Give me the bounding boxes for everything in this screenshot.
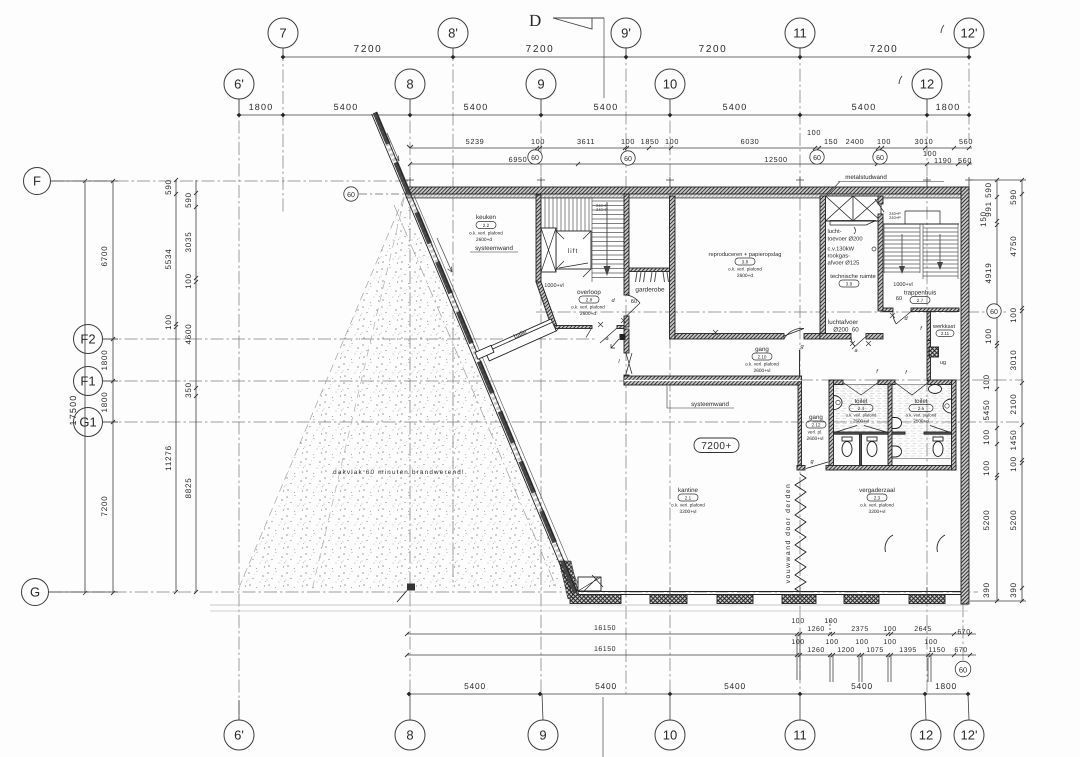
- svg-text:1260: 1260: [807, 647, 825, 654]
- svg-text:5450: 5450: [982, 400, 991, 421]
- small letter labels: [605, 296, 923, 465]
- svg-text:systeemwand: systeemwand: [691, 401, 729, 408]
- svg-text:100: 100: [791, 618, 804, 625]
- grid bolt ticks on top wall: [406, 177, 973, 187]
- wall top inner leaf: [406, 194, 969, 198]
- bottom dim line C y694: [409, 693, 969, 695]
- cubicle wall 2.5: [924, 432, 952, 434]
- svg-text:2.8: 2.8: [586, 298, 593, 303]
- label systeemwand keuken: [470, 245, 518, 252]
- gridline 11 vertical: [799, 47, 801, 694]
- tech room right wall lower: [878, 214, 883, 311]
- grid bolt ticks on bottom wall: [670, 587, 927, 597]
- svg-text:3611: 3611: [577, 137, 595, 146]
- label keuken: [469, 214, 503, 243]
- toilet block top wall a: [829, 380, 843, 385]
- svg-text:2645: 2645: [914, 626, 932, 633]
- svg-text:Ø200 60: Ø200 60: [833, 327, 859, 334]
- small circle o marker: [872, 247, 876, 251]
- svg-text:100: 100: [825, 639, 838, 646]
- svg-text:7200: 7200: [526, 44, 555, 55]
- svg-text:11276: 11276: [164, 445, 173, 471]
- overloop bottom wall right: [617, 326, 624, 329]
- gridline G horizontal: [49, 591, 978, 593]
- svg-text:5200: 5200: [982, 510, 991, 531]
- svg-text:9: 9: [539, 728, 546, 743]
- fire circle 60 bottom: [955, 661, 971, 677]
- svg-text:12500: 12500: [764, 155, 787, 164]
- svg-text:kantine: kantine: [678, 487, 699, 494]
- svg-text:17500: 17500: [68, 394, 78, 425]
- trappenhuis walk line with arrow: [899, 234, 943, 274]
- svg-text:3.8: 3.8: [742, 260, 749, 265]
- bubble 10 bottom: [655, 694, 685, 750]
- svg-text:o.k. verl. plafond: o.k. verl. plafond: [469, 231, 503, 236]
- svg-text:560: 560: [958, 156, 972, 165]
- roof line parallel to wall: [394, 205, 557, 589]
- balie link line to wall: [556, 327, 560, 331]
- svg-text:reproduceren + papieropslag: reproduceren + papieropslag: [709, 251, 782, 258]
- svg-text:1260: 1260: [807, 626, 825, 633]
- labels detail row B: [509, 149, 972, 165]
- wall bottom thin lines: [573, 591, 961, 593]
- gridline F1 horizontal: [103, 380, 624, 382]
- svg-text:100: 100: [883, 639, 896, 646]
- svg-text:vergaderzaal: vergaderzaal: [859, 487, 895, 494]
- vergaderzaal door arc 2: [937, 535, 945, 552]
- window sill block 4: [782, 595, 816, 604]
- svg-text:12': 12': [961, 728, 978, 743]
- label vergaderzaal: [859, 487, 895, 515]
- svg-text:100: 100: [1009, 456, 1018, 472]
- svg-text:1000+vl: 1000+vl: [544, 283, 563, 289]
- overloop bottom wall left: [552, 326, 592, 329]
- svg-text:2600+vl: 2600+vl: [807, 436, 824, 442]
- svg-text:2500+vl: 2500+vl: [853, 419, 869, 424]
- svg-text:G: G: [30, 585, 40, 600]
- toilet block bottom wall: [826, 466, 956, 471]
- svg-text:60: 60: [347, 192, 355, 199]
- fire circle 60 left of wall: [344, 187, 409, 201]
- svg-text:5400: 5400: [464, 681, 486, 691]
- wall below overloop corner vertical: [624, 329, 629, 353]
- gridline 9 vertical: [540, 99, 542, 694]
- svg-text:240+P: 240+P: [889, 215, 901, 220]
- chain R1 line: [996, 180, 998, 601]
- svg-text:12': 12': [961, 26, 978, 41]
- svg-text:6700: 6700: [100, 246, 109, 267]
- vouwwand zigzag: [795, 474, 806, 592]
- roof edge line lower 2: [210, 610, 968, 612]
- wall diagonal edge lines: [372, 114, 573, 595]
- svg-text:10: 10: [663, 77, 677, 92]
- svg-text:100: 100: [665, 137, 679, 146]
- svg-text:toevoer Ø200: toevoer Ø200: [828, 236, 863, 243]
- gridline F2 horizontal: [103, 338, 596, 340]
- window sill block 5: [844, 595, 879, 604]
- svg-text:8: 8: [406, 728, 413, 743]
- svg-text:560: 560: [959, 137, 973, 146]
- svg-text:7200: 7200: [870, 44, 899, 55]
- label technische ruimte: [830, 273, 875, 287]
- svg-text:toilet: toilet: [854, 398, 867, 405]
- door in wall x624: [626, 353, 632, 374]
- bubble 12' top: [941, 18, 984, 57]
- trappenhuis bottom wall right: [911, 308, 959, 312]
- svg-text:lift: lift: [568, 248, 579, 255]
- gridline 12 vertical: [926, 99, 928, 694]
- section D line upper: [603, 18, 605, 98]
- svg-text:gang: gang: [755, 346, 769, 353]
- bubble 6' bottom: [224, 700, 254, 750]
- svg-text:590: 590: [984, 182, 993, 198]
- svg-text:1450: 1450: [1009, 430, 1018, 451]
- svg-text:2500+d: 2500+d: [913, 419, 929, 424]
- stair right wall lower: [624, 316, 629, 327]
- trappenhuis treads right flight: [923, 224, 958, 279]
- gridline 9' vertical: [625, 47, 627, 694]
- svg-text:390: 390: [1009, 582, 1018, 598]
- svg-text:60: 60: [531, 155, 539, 162]
- svg-text:590: 590: [184, 192, 193, 208]
- tech bottom wall right: [866, 334, 883, 340]
- label kantine: [671, 487, 705, 515]
- ticks bottom A: [405, 632, 972, 657]
- svg-text:trappenhuis: trappenhuis: [904, 290, 936, 297]
- garderobe top wall: [629, 268, 670, 272]
- svg-text:100: 100: [1009, 307, 1018, 323]
- labels bottom C: [464, 681, 957, 691]
- svg-text:overloop: overloop: [577, 289, 601, 296]
- svg-text:8': 8': [448, 26, 458, 41]
- gridline 8' vertical: [452, 48, 454, 586]
- wall stub left of toilet bottom: [797, 466, 805, 471]
- wall diagonal band hatched segments: [375, 113, 576, 594]
- svg-text:toilet: toilet: [914, 398, 927, 405]
- svg-text:2.4: 2.4: [858, 406, 865, 411]
- tiny 240 annotations: [596, 203, 901, 220]
- svg-text:3035: 3035: [184, 232, 193, 253]
- fire circle 60 d: [873, 150, 887, 164]
- label luchtafvoer: [828, 319, 859, 334]
- chain L4 line: [195, 180, 197, 592]
- svg-text:100: 100: [824, 618, 837, 625]
- wall right exterior: [961, 187, 969, 604]
- chain 17500 line: [84, 181, 86, 593]
- vergaderzaal door arc 1: [885, 535, 893, 552]
- label toilet 2.5: [906, 398, 937, 424]
- label gang 2.12: [806, 414, 826, 442]
- svg-text:7200: 7200: [699, 44, 728, 55]
- urinal screen 2.5: [892, 432, 905, 434]
- trappenhuis upper landing rail: [905, 211, 940, 224]
- svg-text:1800: 1800: [935, 681, 957, 691]
- bottom dim line B y655: [407, 654, 976, 656]
- marker black square at G grid 8: [397, 584, 415, 603]
- svg-text:F2: F2: [80, 332, 95, 347]
- roof stipple triangle: [238, 197, 572, 590]
- urinal 2: [892, 446, 902, 457]
- svg-text:5400: 5400: [723, 102, 748, 112]
- svg-text:F: F: [33, 174, 41, 189]
- bubble F1: [74, 367, 119, 396]
- svg-text:2600+d: 2600+d: [580, 311, 596, 317]
- trappenhuis door leaf: [893, 312, 911, 325]
- svg-text:590: 590: [164, 179, 173, 195]
- svg-text:o.k. verl. plafond: o.k. verl. plafond: [860, 503, 894, 508]
- svg-text:2.1: 2.1: [685, 496, 692, 501]
- stair block diagonal wall: [536, 282, 557, 328]
- fire circle 60 a: [528, 150, 542, 164]
- svg-text:afvoer Ø125: afvoer Ø125: [828, 260, 860, 267]
- svg-text:5534: 5534: [164, 249, 173, 270]
- svg-text:7: 7: [279, 26, 286, 41]
- gridline 6' vertical: [238, 99, 240, 720]
- svg-text:100: 100: [531, 137, 545, 146]
- toilet block left wall: [829, 380, 834, 470]
- sink toilet 2.5: [943, 399, 952, 413]
- svg-text:2.10: 2.10: [758, 355, 767, 360]
- svg-text:vouwwand door derden: vouwwand door derden: [785, 483, 792, 584]
- svg-text:12: 12: [919, 728, 933, 743]
- section D line lower: [602, 697, 604, 757]
- gridline 12' vertical lower: [962, 604, 964, 661]
- gridline 10 vertical: [669, 99, 671, 694]
- svg-text:4600: 4600: [184, 324, 193, 345]
- svg-text:100: 100: [883, 626, 896, 633]
- vide shaft with cross: [541, 228, 556, 272]
- bubble G1: [74, 408, 119, 437]
- tech shaft box with braces: [826, 196, 882, 221]
- svg-text:2.7: 2.7: [917, 298, 924, 303]
- svg-text:9': 9': [621, 26, 631, 41]
- svg-text:1800: 1800: [936, 102, 961, 112]
- svg-text:o.k. verl. plafond: o.k. verl. plafond: [745, 362, 779, 367]
- svg-text:a: a: [854, 348, 857, 354]
- svg-text:16150: 16150: [594, 646, 616, 653]
- fire rating line y311: [536, 311, 1008, 313]
- svg-text:1800: 1800: [100, 392, 109, 413]
- bubble 12' bottom: [954, 694, 984, 750]
- bubble 11: [785, 18, 815, 57]
- gang 2.12 left wall: [798, 382, 802, 466]
- ticks detail row A: [407, 145, 971, 166]
- gridline 7 vertical: [282, 48, 284, 212]
- connector G circle to chains: [49, 591, 118, 593]
- svg-text:gang: gang: [809, 414, 823, 421]
- svg-text:1395: 1395: [899, 647, 917, 654]
- svg-text:1150: 1150: [928, 647, 945, 654]
- chain R2 line: [1021, 180, 1023, 601]
- stair treads horizontal right flight: [592, 197, 624, 282]
- svg-text:dakvlak 60 minuten brandwerend: dakvlak 60 minuten brandwerend!: [333, 469, 465, 476]
- bottom dim line A y634: [407, 633, 976, 635]
- repro bottom wall left part: [675, 334, 784, 340]
- labels chain R2: [1009, 189, 1018, 598]
- label overloop: [571, 289, 605, 317]
- repro bottom wall right part: [804, 334, 820, 340]
- svg-text:5200: 5200: [1009, 510, 1018, 531]
- svg-text:1190: 1190: [934, 156, 952, 165]
- fire circle 60 c: [810, 150, 824, 164]
- svg-text:2.12: 2.12: [812, 423, 821, 428]
- tech door a leaf: [851, 337, 866, 350]
- roof fold line interior: [312, 199, 404, 590]
- bubble 10 top: [655, 69, 685, 115]
- svg-text:100: 100: [621, 137, 635, 146]
- dim line row1 7200s: [283, 56, 969, 58]
- detail dim line A y148: [410, 147, 972, 149]
- lift shaft box: [556, 231, 591, 269]
- connector F circle to chains: [51, 180, 118, 182]
- repro door leaf: [784, 328, 804, 339]
- svg-text:2100: 2100: [1009, 394, 1018, 415]
- roof triangle left edge dashed: [238, 197, 404, 590]
- svg-text:100: 100: [984, 328, 993, 344]
- label trappenhuis: [893, 282, 936, 304]
- partition marker double ticks below lines: [797, 620, 931, 682]
- overloop door leaf: [586, 328, 617, 344]
- labels chain R1: [979, 182, 993, 598]
- stair down arrow: [604, 202, 611, 276]
- svg-text:3200+vl: 3200+vl: [869, 509, 886, 515]
- svg-text:1800: 1800: [100, 350, 109, 371]
- svg-text:2600+d: 2600+d: [476, 237, 492, 243]
- repro left wall: [670, 196, 676, 339]
- urinal 1: [892, 418, 902, 429]
- svg-text:6030: 6030: [741, 137, 760, 146]
- labels row2: [249, 102, 961, 112]
- vent louvre symbol: [830, 221, 876, 226]
- svg-text:3010: 3010: [1009, 350, 1018, 371]
- gridline F1 horizontal right part: [800, 379, 1023, 381]
- arrow marker near column: [611, 339, 619, 348]
- svg-text:F1: F1: [80, 374, 95, 389]
- toilet mid wall: [888, 384, 892, 466]
- toilet block top wall b: [878, 380, 895, 385]
- svg-text:11: 11: [793, 728, 807, 743]
- bubble 9': [611, 18, 641, 57]
- svg-text:a: a: [605, 336, 608, 342]
- svg-text:6': 6': [234, 728, 244, 743]
- svg-text:metalstudwand: metalstudwand: [845, 174, 887, 181]
- svg-text:100: 100: [877, 137, 891, 146]
- label systeemwand 2: [667, 386, 734, 408]
- svg-text:240+P: 240+P: [596, 207, 608, 212]
- bubble 11 bottom: [785, 694, 815, 750]
- svg-text:D: D: [529, 11, 541, 30]
- stair right wall upper: [624, 194, 629, 295]
- svg-text:350: 350: [184, 382, 193, 398]
- svg-text:o.k. verl. plafond: o.k. verl. plafond: [846, 413, 877, 418]
- svg-text:100: 100: [164, 314, 173, 330]
- svg-text:8: 8: [406, 77, 413, 92]
- svg-text:3010: 3010: [915, 137, 934, 146]
- detail dim line B y164: [410, 163, 972, 165]
- label gang 2.10: [745, 346, 779, 374]
- labels detail row A: [466, 128, 973, 146]
- sink toilet 2.4: [834, 396, 843, 410]
- svg-text:150: 150: [824, 137, 838, 146]
- svg-text:2.5: 2.5: [918, 406, 925, 411]
- svg-text:keuken: keuken: [476, 214, 497, 221]
- svg-text:590: 590: [1009, 189, 1018, 205]
- bubble 12 bottom: [911, 694, 941, 750]
- svg-text:670: 670: [957, 629, 970, 636]
- stair landing edge: [541, 230, 556, 232]
- ug fixture: [929, 347, 939, 357]
- svg-text:1800: 1800: [249, 102, 274, 112]
- toilet door flap 2: [895, 383, 928, 396]
- wc bowl cubicle 2: [867, 437, 877, 457]
- svg-text:2600+vl: 2600+vl: [754, 368, 771, 374]
- window sill block 3: [717, 595, 753, 604]
- kantine top wall: [624, 376, 802, 385]
- svg-text:16150: 16150: [594, 625, 616, 632]
- wc bowl cubicle 1: [842, 437, 852, 457]
- trappenhuis treads left flight: [884, 224, 920, 273]
- label werkkast: [932, 323, 956, 337]
- balie desk: [475, 319, 556, 361]
- cubicle wall 2.4 horizontal: [834, 432, 889, 434]
- svg-text:o.k. verl. plafond: o.k. verl. plafond: [906, 413, 937, 418]
- bubble 6' top: [224, 69, 254, 115]
- svg-text:2400: 2400: [846, 137, 865, 146]
- trappenhuis bottom wall left: [883, 308, 893, 312]
- svg-text:4750: 4750: [1009, 236, 1018, 257]
- svg-text:garderobe: garderobe: [635, 287, 665, 294]
- chain L3 line: [175, 180, 177, 592]
- svg-text:100: 100: [982, 460, 991, 476]
- ticks bottom C diamonds: [407, 692, 971, 697]
- ticks chain R1: [995, 178, 999, 603]
- bubble 7: [268, 18, 298, 57]
- labels chain F-G: [100, 246, 109, 517]
- systeemwand partition gang: [799, 350, 801, 377]
- wall top exterior: [406, 187, 969, 194]
- svg-text:o.k. verl. plafond: o.k. verl. plafond: [728, 267, 762, 272]
- labels bottom B: [594, 639, 968, 654]
- tech room left wall: [820, 196, 826, 339]
- stair treads vertical: [545, 197, 589, 231]
- window sill block 1: [570, 595, 621, 604]
- bubble G: [22, 579, 49, 606]
- toilet block top wall c: [928, 380, 956, 385]
- fire circle 60 right: [987, 304, 1001, 318]
- svg-text:5400: 5400: [724, 681, 746, 691]
- svg-text:11: 11: [793, 26, 807, 41]
- wc bowl cubicle 3: [933, 437, 943, 457]
- gridline G1 horizontal: [103, 421, 1023, 423]
- cubicle doors 2.4: [836, 426, 886, 433]
- svg-text:60: 60: [990, 309, 998, 316]
- bubble F: [24, 168, 51, 195]
- svg-text:werkkast: werkkast: [932, 323, 956, 330]
- wc fixture top 2.5: [929, 385, 942, 394]
- bubble 8': [438, 18, 468, 57]
- label reproduceren: [709, 251, 782, 279]
- svg-text:100: 100: [184, 273, 193, 289]
- svg-text:lucht-: lucht-: [828, 228, 842, 235]
- ticks chain R2: [1020, 178, 1024, 603]
- svg-text:2375: 2375: [851, 626, 869, 633]
- trappenhuis landing top line: [883, 223, 959, 225]
- roof slope arrow lower: [437, 238, 452, 272]
- label luchttoevoer: [828, 228, 863, 267]
- door jamb x marks: [598, 313, 895, 346]
- bubble 9 bottom: [528, 694, 558, 750]
- gridline 12' vertical: [968, 47, 970, 140]
